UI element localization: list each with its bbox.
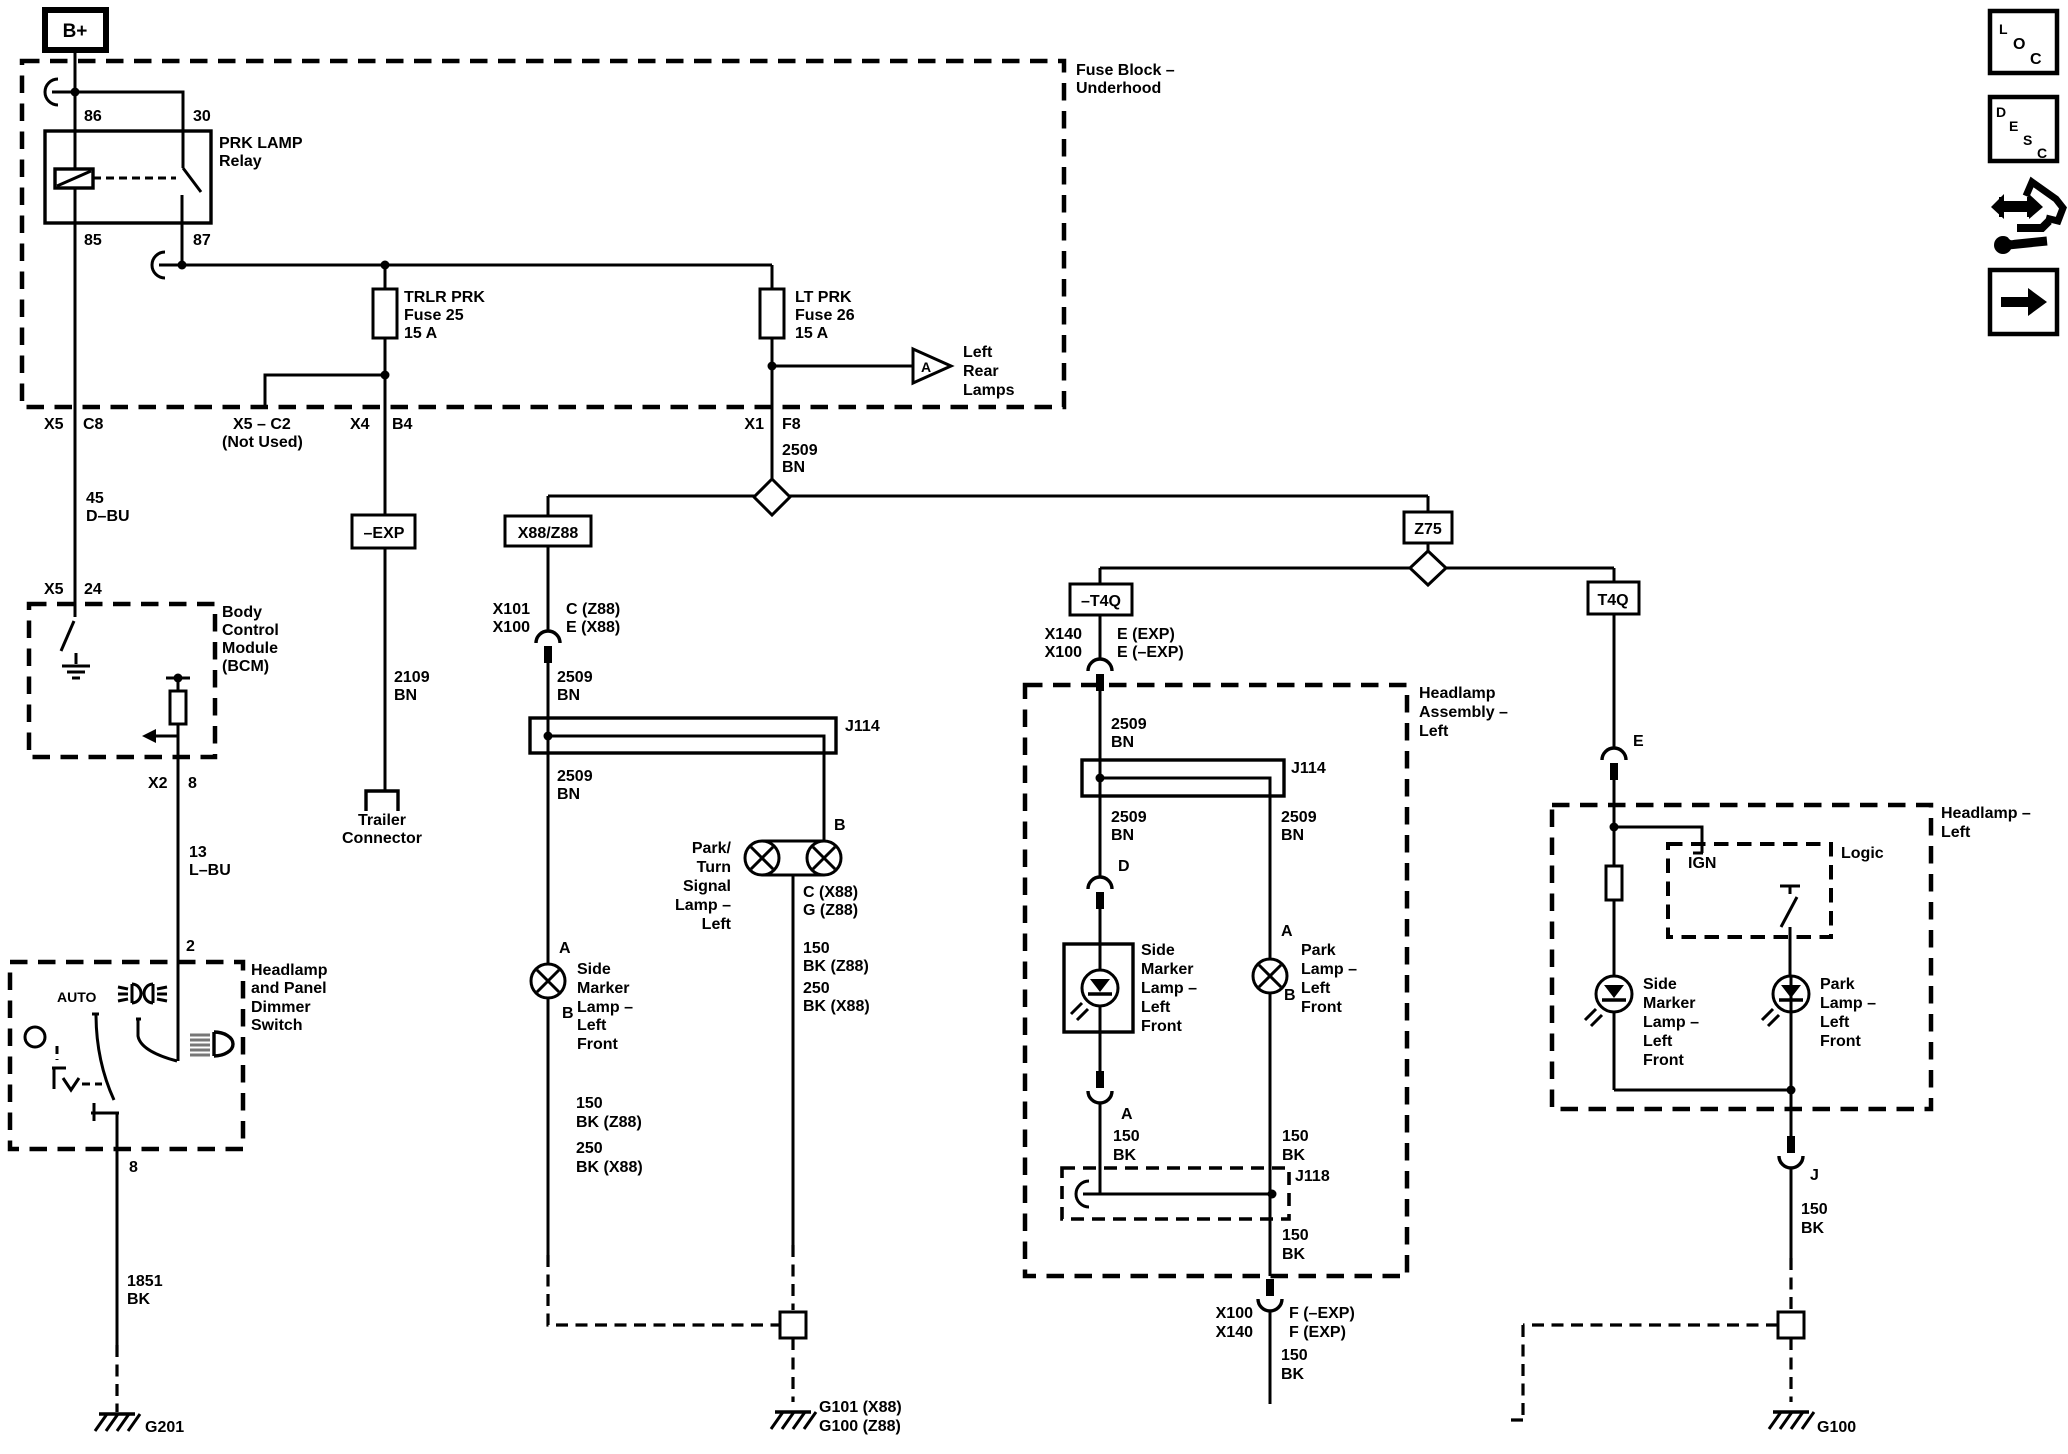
- svg-text:AUTO: AUTO: [57, 989, 97, 1005]
- svg-text:BN: BN: [557, 687, 580, 704]
- svg-text:D–BU: D–BU: [86, 508, 130, 525]
- svg-text:X140: X140: [1045, 626, 1082, 643]
- svg-text:BN: BN: [1111, 827, 1134, 844]
- svg-text:Park/: Park/: [692, 840, 732, 857]
- svg-text:TRLR PRK: TRLR PRK: [404, 289, 485, 306]
- svg-text:J114: J114: [845, 718, 880, 735]
- svg-text:BN: BN: [1281, 827, 1304, 844]
- svg-text:Left: Left: [702, 916, 732, 933]
- svg-text:15 A: 15 A: [404, 325, 438, 342]
- svg-text:Lamp –: Lamp –: [675, 897, 731, 914]
- svg-text:A: A: [1121, 1106, 1133, 1123]
- svg-text:86: 86: [84, 108, 102, 125]
- svg-text:A: A: [559, 940, 571, 957]
- svg-text:X2: X2: [148, 775, 168, 792]
- svg-text:Module: Module: [222, 640, 278, 657]
- svg-text:C: C: [2037, 145, 2047, 161]
- svg-text:E (–EXP): E (–EXP): [1117, 644, 1184, 661]
- svg-text:1851: 1851: [127, 1273, 163, 1290]
- svg-text:150: 150: [803, 940, 830, 957]
- svg-text:Front: Front: [1820, 1033, 1862, 1050]
- svg-text:Headlamp: Headlamp: [251, 962, 328, 979]
- svg-text:30: 30: [193, 108, 211, 125]
- svg-text:2509: 2509: [1111, 716, 1147, 733]
- svg-text:Park: Park: [1820, 976, 1855, 993]
- svg-text:X5: X5: [44, 581, 64, 598]
- svg-text:8: 8: [129, 1159, 138, 1176]
- svg-text:–EXP: –EXP: [364, 525, 405, 542]
- svg-text:G100 (Z88): G100 (Z88): [819, 1418, 901, 1435]
- svg-text:2509: 2509: [782, 442, 818, 459]
- svg-text:G100: G100: [1817, 1419, 1856, 1436]
- svg-text:BN: BN: [394, 687, 417, 704]
- svg-text:BK: BK: [1282, 1147, 1306, 1164]
- svg-text:T4Q: T4Q: [1597, 592, 1628, 609]
- svg-text:X4: X4: [350, 416, 370, 433]
- svg-text:Switch: Switch: [251, 1017, 303, 1034]
- svg-text:BK (X88): BK (X88): [803, 998, 870, 1015]
- svg-text:Marker: Marker: [1643, 995, 1695, 1012]
- svg-text:(BCM): (BCM): [222, 658, 269, 675]
- svg-text:Lamp –: Lamp –: [1301, 961, 1357, 978]
- svg-text:X100: X100: [1045, 644, 1082, 661]
- svg-text:8: 8: [188, 775, 197, 792]
- svg-text:Lamp –: Lamp –: [1643, 1014, 1699, 1031]
- svg-text:Z75: Z75: [1414, 521, 1442, 538]
- svg-text:X5: X5: [44, 416, 64, 433]
- svg-text:Front: Front: [1301, 999, 1343, 1016]
- svg-text:BK: BK: [1113, 1147, 1137, 1164]
- svg-text:Left: Left: [1941, 824, 1971, 841]
- svg-text:Headlamp: Headlamp: [1419, 685, 1496, 702]
- svg-text:Headlamp –: Headlamp –: [1941, 805, 2031, 822]
- svg-text:Assembly –: Assembly –: [1419, 704, 1508, 721]
- svg-text:B+: B+: [63, 21, 88, 42]
- svg-text:2509: 2509: [557, 768, 593, 785]
- svg-text:E: E: [2009, 118, 2018, 134]
- svg-text:Fuse 25: Fuse 25: [404, 307, 464, 324]
- svg-text:E: E: [1633, 733, 1644, 750]
- svg-text:X5 – C2: X5 – C2: [233, 416, 291, 433]
- svg-text:BK (X88): BK (X88): [576, 1159, 643, 1176]
- svg-text:85: 85: [84, 232, 102, 249]
- svg-text:LT PRK: LT PRK: [795, 289, 852, 306]
- svg-text:F (EXP): F (EXP): [1289, 1324, 1346, 1341]
- svg-text:BN: BN: [557, 786, 580, 803]
- svg-text:B: B: [834, 817, 846, 834]
- svg-text:Trailer: Trailer: [358, 812, 406, 829]
- svg-text:Signal: Signal: [683, 878, 731, 895]
- svg-text:150: 150: [1801, 1201, 1828, 1218]
- svg-text:C (Z88): C (Z88): [566, 601, 620, 618]
- svg-text:F8: F8: [782, 416, 801, 433]
- svg-text:BK (Z88): BK (Z88): [803, 958, 869, 975]
- svg-text:Underhood: Underhood: [1076, 80, 1161, 97]
- svg-text:Left: Left: [1643, 1033, 1673, 1050]
- svg-text:X88/Z88: X88/Z88: [518, 525, 579, 542]
- svg-text:Side: Side: [577, 961, 611, 978]
- svg-text:BK: BK: [127, 1291, 151, 1308]
- svg-text:IGN: IGN: [1688, 855, 1716, 872]
- svg-text:L: L: [1999, 21, 2008, 37]
- svg-text:(Not Used): (Not Used): [222, 434, 303, 451]
- svg-text:150: 150: [1282, 1128, 1309, 1145]
- svg-text:E (X88): E (X88): [566, 619, 620, 636]
- svg-text:13: 13: [189, 844, 207, 861]
- svg-text:Connector: Connector: [342, 830, 422, 847]
- svg-text:2509: 2509: [557, 669, 593, 686]
- svg-text:O: O: [2013, 36, 2025, 53]
- svg-text:150: 150: [1282, 1227, 1309, 1244]
- svg-text:D: D: [1996, 104, 2006, 120]
- svg-text:Body: Body: [222, 604, 262, 621]
- svg-text:BN: BN: [1111, 734, 1134, 751]
- svg-text:X100: X100: [1216, 1305, 1253, 1322]
- svg-text:Front: Front: [1643, 1052, 1685, 1069]
- svg-text:X100: X100: [493, 619, 530, 636]
- svg-text:150: 150: [1113, 1128, 1140, 1145]
- svg-text:B: B: [1284, 987, 1296, 1004]
- svg-text:PRK LAMP: PRK LAMP: [219, 135, 303, 152]
- svg-text:45: 45: [86, 490, 104, 507]
- svg-text:G101 (X88): G101 (X88): [819, 1399, 902, 1416]
- svg-text:X1: X1: [744, 416, 764, 433]
- svg-text:F (–EXP): F (–EXP): [1289, 1305, 1355, 1322]
- svg-text:–T4Q: –T4Q: [1081, 593, 1121, 610]
- svg-text:Fuse Block –: Fuse Block –: [1076, 62, 1175, 79]
- svg-text:C (X88): C (X88): [803, 884, 858, 901]
- svg-text:250: 250: [576, 1140, 603, 1157]
- svg-text:Logic: Logic: [1841, 845, 1884, 862]
- svg-text:Left: Left: [1820, 1014, 1850, 1031]
- svg-text:150: 150: [576, 1095, 603, 1112]
- svg-text:and Panel: and Panel: [251, 980, 327, 997]
- svg-text:Side: Side: [1643, 976, 1677, 993]
- svg-text:Lamps: Lamps: [963, 382, 1015, 399]
- svg-text:Dimmer: Dimmer: [251, 999, 311, 1016]
- svg-text:Marker: Marker: [577, 980, 629, 997]
- svg-text:Side: Side: [1141, 942, 1175, 959]
- svg-text:Lamp –: Lamp –: [1820, 995, 1876, 1012]
- svg-text:B4: B4: [392, 416, 413, 433]
- svg-text:Front: Front: [577, 1036, 619, 1053]
- svg-text:Left: Left: [963, 344, 993, 361]
- svg-text:2109: 2109: [394, 669, 430, 686]
- svg-text:J114: J114: [1291, 760, 1326, 777]
- svg-text:S: S: [2023, 132, 2032, 148]
- svg-text:BK: BK: [1281, 1366, 1305, 1383]
- svg-text:Left: Left: [1141, 999, 1171, 1016]
- svg-text:D: D: [1118, 858, 1130, 875]
- svg-text:BK: BK: [1801, 1220, 1825, 1237]
- svg-text:C: C: [2030, 51, 2042, 68]
- svg-text:X101: X101: [493, 601, 530, 618]
- svg-text:Park: Park: [1301, 942, 1336, 959]
- svg-text:Control: Control: [222, 622, 279, 639]
- svg-text:L–BU: L–BU: [189, 862, 231, 879]
- svg-text:J: J: [1810, 1167, 1819, 1184]
- svg-text:Marker: Marker: [1141, 961, 1193, 978]
- svg-text:Turn: Turn: [697, 859, 731, 876]
- svg-text:15 A: 15 A: [795, 325, 829, 342]
- svg-text:J118: J118: [1295, 1168, 1330, 1185]
- svg-text:A: A: [921, 359, 931, 375]
- svg-text:87: 87: [193, 232, 211, 249]
- svg-text:C8: C8: [83, 416, 104, 433]
- svg-text:Relay: Relay: [219, 153, 262, 170]
- svg-text:Left: Left: [1301, 980, 1331, 997]
- svg-text:Front: Front: [1141, 1018, 1183, 1035]
- svg-text:G201: G201: [145, 1419, 184, 1436]
- svg-text:2: 2: [186, 938, 195, 955]
- svg-text:Left: Left: [1419, 723, 1449, 740]
- svg-text:B: B: [562, 1005, 574, 1022]
- svg-text:A: A: [1281, 923, 1293, 940]
- svg-text:Lamp –: Lamp –: [577, 999, 633, 1016]
- svg-text:BK: BK: [1282, 1246, 1306, 1263]
- svg-text:Fuse 26: Fuse 26: [795, 307, 855, 324]
- svg-text:Left: Left: [577, 1017, 607, 1034]
- svg-text:X140: X140: [1216, 1324, 1253, 1341]
- svg-text:G (Z88): G (Z88): [803, 902, 858, 919]
- svg-text:E (EXP): E (EXP): [1117, 626, 1175, 643]
- svg-text:Lamp –: Lamp –: [1141, 980, 1197, 997]
- svg-text:24: 24: [84, 581, 102, 598]
- svg-text:Rear: Rear: [963, 363, 999, 380]
- svg-text:2509: 2509: [1281, 809, 1317, 826]
- svg-text:2509: 2509: [1111, 809, 1147, 826]
- svg-text:250: 250: [803, 980, 830, 997]
- svg-text:BN: BN: [782, 459, 805, 476]
- svg-text:BK (Z88): BK (Z88): [576, 1114, 642, 1131]
- svg-text:150: 150: [1281, 1347, 1308, 1364]
